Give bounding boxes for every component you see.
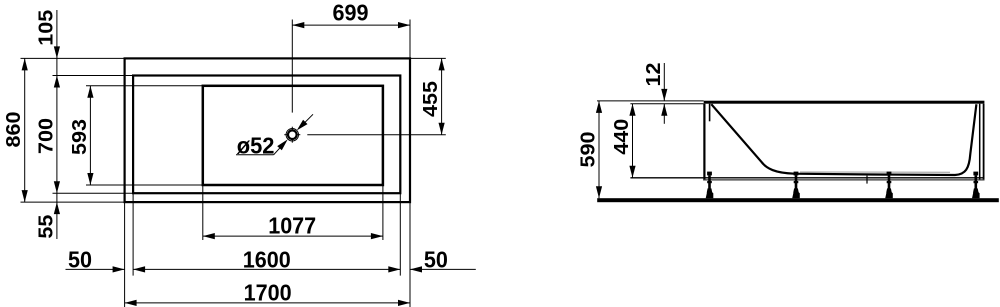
drain ring [288, 130, 297, 139]
ext line outer right top [409, 20, 411, 59]
dimension 455 [441, 58, 443, 134]
dimension 1700 [125, 302, 410, 304]
svg-text:55: 55 [35, 215, 57, 239]
arrow 700 top [54, 76, 60, 88]
left wall [703, 104, 705, 181]
svg-text:50: 50 [68, 246, 92, 272]
svg-text:1700: 1700 [244, 279, 292, 305]
frame bottom bar [704, 179, 985, 181]
drain tick side view [866, 176, 868, 184]
arrow 55 bottom [54, 202, 60, 214]
ext line 1077 left [202, 185, 204, 240]
ext line 1700 right [409, 202, 411, 307]
bathtub basin rect [203, 86, 383, 185]
ext line 1600 left [132, 193, 134, 275]
svg-text:455: 455 [420, 81, 442, 117]
leg 2 [794, 172, 799, 176]
ext line basin top [86, 85, 203, 87]
ext line outer top [21, 57, 124, 59]
bathtub top view rim inner rect [133, 76, 400, 194]
ext line rim top left [597, 100, 704, 102]
ext line rim top [53, 75, 134, 77]
svg-text:1077: 1077 [268, 212, 316, 238]
dimension 590 [598, 101, 600, 198]
frame line / 440 ext [630, 177, 983, 179]
svg-text:1600: 1600 [243, 246, 291, 272]
leg 4 [973, 172, 978, 176]
ext line basin bottom [86, 184, 203, 186]
ext line 1077 right [382, 185, 384, 240]
ground line [597, 198, 999, 202]
dimension 50 right [410, 268, 476, 270]
ext line 1700 left [124, 202, 126, 307]
ext line drain vertical [291, 20, 293, 113]
svg-text:12: 12 [643, 63, 665, 87]
interior profile [711, 104, 976, 175]
svg-text:593: 593 [69, 119, 91, 155]
drain outer circle [286, 129, 298, 141]
ext line rim bottom left [630, 103, 703, 105]
left inner cap [709, 104, 711, 122]
svg-text:700: 700 [35, 118, 57, 154]
inner shell faint line [800, 171, 950, 173]
dimension 593 [89, 86, 91, 185]
drain ticks [291, 127, 293, 130]
svg-text:105: 105 [35, 10, 57, 46]
dimension 440 [632, 104, 634, 178]
bathtub top view outer rect [125, 58, 410, 202]
dimension 860 [24, 58, 26, 202]
dimension 50 left [66, 268, 125, 270]
ext line rim bottom [53, 192, 134, 194]
arrow 105 top [54, 46, 60, 58]
arrow 700 bottom [54, 181, 60, 193]
dimension line 105-700-55 [56, 10, 58, 239]
svg-text:699: 699 [333, 0, 369, 26]
ext line 455 bottom [307, 134, 446, 136]
svg-text:860: 860 [3, 112, 25, 148]
dimension 12 [663, 63, 665, 101]
dimension 1600 [133, 268, 400, 270]
ext line outer bottom [21, 201, 125, 203]
svg-text:50: 50 [424, 246, 448, 272]
right wall inner [979, 104, 981, 181]
ext line 455 top [410, 57, 446, 59]
right wall outer [983, 104, 985, 181]
dimension 699 [292, 24, 410, 26]
ext line 1600 right [399, 193, 401, 275]
svg-text:590: 590 [578, 132, 600, 168]
side view rim bar [704, 101, 985, 104]
svg-text:440: 440 [611, 119, 633, 155]
dimension 1077 [203, 235, 383, 237]
leader arrow upper right to drain [299, 114, 313, 128]
leg 1 [707, 172, 712, 176]
leg 3 [887, 172, 892, 176]
